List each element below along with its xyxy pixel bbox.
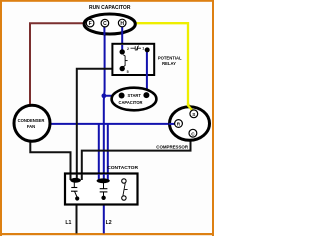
svg-text:RELAY: RELAY: [162, 61, 176, 66]
svg-text:L2: L2: [106, 220, 112, 226]
svg-text:F: F: [89, 21, 92, 27]
svg-text:COMPRESSOR: COMPRESSOR: [156, 144, 189, 149]
svg-text:C: C: [103, 21, 107, 27]
svg-text:5: 5: [127, 70, 129, 74]
svg-text:1: 1: [142, 47, 144, 51]
svg-text:C: C: [191, 131, 195, 136]
svg-text:L1: L1: [65, 220, 71, 226]
svg-text:2: 2: [127, 47, 129, 51]
svg-text:CONTACTOR: CONTACTOR: [107, 165, 138, 171]
svg-text:START: START: [128, 93, 142, 98]
svg-text:FAN: FAN: [27, 124, 35, 129]
svg-text:S: S: [192, 112, 195, 117]
svg-text:POTENTIAL: POTENTIAL: [158, 55, 182, 60]
svg-text:CAPACITOR: CAPACITOR: [119, 100, 143, 105]
svg-text:RUN CAPACITOR: RUN CAPACITOR: [89, 5, 131, 11]
svg-text:H: H: [120, 21, 124, 27]
svg-text:CONDENSER: CONDENSER: [18, 118, 45, 123]
